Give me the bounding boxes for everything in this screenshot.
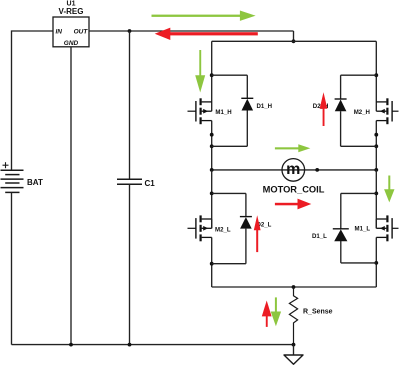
pin label GND	[64, 40, 79, 47]
ground	[284, 345, 303, 365]
svg-text:M1_L: M1_L	[355, 226, 371, 233]
wire left rail upper (top rail to M1_H)	[211, 41, 213, 111]
current arrow green down (left rail)	[195, 50, 205, 93]
label U1	[67, 1, 76, 8]
wire M2_H source to motor rail	[375, 121, 377, 170]
current arrow green right (top)	[152, 11, 256, 21]
junction D2_H top	[374, 73, 378, 77]
label D2_H	[313, 103, 329, 110]
svg-text:M2_H: M2_H	[354, 109, 370, 116]
diode D2_L	[240, 193, 252, 263]
label D1_H	[257, 103, 273, 110]
battery plus sign	[3, 162, 9, 168]
junction D1_H bottom	[210, 144, 214, 148]
label R_Sense	[303, 309, 333, 316]
junction C1 tap on OUT net	[128, 29, 132, 33]
label C1	[145, 179, 156, 188]
junction bottom rail center	[292, 285, 296, 289]
motor MOTOR_COIL	[282, 159, 305, 182]
transistor M1_L	[376, 215, 398, 241]
wire OUT net: regulator OUT to bridge drop	[89, 30, 294, 32]
wire M1_H source to motor rail	[211, 121, 213, 170]
label V-REG	[59, 7, 84, 16]
wire motor rail	[212, 169, 377, 171]
svg-text:IN: IN	[56, 28, 63, 35]
wire M1_L source to bottom rail	[375, 237, 377, 287]
wire D1_H bottom link	[212, 145, 248, 147]
label M1_H	[215, 109, 231, 116]
junction motor right tap	[315, 168, 319, 172]
label D1_L	[312, 233, 327, 240]
junction D1_H top	[210, 73, 214, 77]
label M1_L	[355, 226, 371, 233]
wire M1_L drain from motor rail	[375, 219, 377, 228]
diode D1_L	[333, 193, 349, 263]
label D2_L	[257, 222, 272, 229]
pin label OUT	[74, 28, 89, 35]
junction bottom bus C1 lead	[128, 343, 132, 347]
wire D2_H top link	[341, 74, 377, 76]
junction M2_H source pin	[374, 133, 378, 137]
wire bottom bus	[12, 344, 294, 346]
wire D1_H top link	[212, 74, 248, 76]
wire bottom rail	[212, 286, 377, 288]
transistor M1_H	[188, 98, 212, 124]
current arrow red up (R_Sense)	[262, 301, 272, 327]
transistor M2_L	[188, 215, 212, 241]
svg-text:BAT: BAT	[27, 178, 43, 187]
svg-text:M2_L: M2_L	[215, 226, 231, 233]
junction D2_L bottom	[210, 262, 214, 266]
wire D2_H bottom link	[341, 145, 377, 147]
junction M1_H source pin	[210, 133, 214, 137]
wire C1 bottom lead	[129, 184, 131, 344]
capacitor C1	[129, 31, 131, 179]
svg-text:D1_L: D1_L	[312, 233, 327, 240]
wire D1_L bottom link	[341, 262, 377, 264]
svg-text:D1_H: D1_H	[257, 103, 273, 110]
junction bottom bus R_Sense	[292, 343, 296, 347]
current arrow green down (R_Sense)	[271, 297, 281, 326]
wire D2_L bottom link	[212, 263, 246, 265]
current arrow red left (top)	[155, 28, 258, 40]
junction D1_L bottom	[374, 261, 378, 265]
current arrow green down (right rail)	[384, 176, 394, 203]
transistor M2_H	[376, 98, 398, 124]
wire left rail mid (motor rail to M2_L)	[211, 170, 213, 228]
label M2_L	[215, 226, 231, 233]
wire regulator GND lead	[70, 47, 72, 345]
junction motor rail right	[374, 168, 378, 172]
svg-text:R_Sense: R_Sense	[303, 309, 333, 316]
label BAT	[27, 178, 43, 187]
wire right rail upper (top rail to M2_H)	[375, 41, 377, 111]
battery BAT	[1, 170, 24, 192]
junction D2_H bottom	[374, 144, 378, 148]
wire D2_L top link	[212, 192, 246, 194]
wire M2_L source to bottom rail	[211, 237, 213, 287]
diode D1_H	[241, 75, 253, 146]
voltage regulator U1 V-REG	[53, 17, 89, 47]
svg-text:OUT: OUT	[74, 28, 89, 35]
junction D2_L top	[210, 192, 214, 196]
resistor R_Sense	[289, 287, 297, 345]
pin label IN	[56, 28, 63, 35]
svg-text:C1: C1	[145, 179, 156, 188]
svg-text:MOTOR_COIL: MOTOR_COIL	[263, 184, 325, 194]
label M2_H	[354, 109, 370, 116]
current arrow red up (D2_H)	[320, 92, 328, 126]
junction D1_L top	[374, 192, 378, 196]
junction motor rail left	[210, 168, 214, 172]
wire right rail mid (motor rail to M1_L)	[375, 170, 377, 228]
svg-text:V-REG: V-REG	[59, 7, 84, 16]
svg-text:GND: GND	[64, 40, 79, 47]
svg-text:M1_H: M1_H	[215, 109, 231, 116]
current arrow red up (D2_L)	[254, 215, 261, 252]
diode D2_H	[335, 75, 347, 146]
wire OUT drop to top rail	[293, 31, 295, 41]
svg-text:m: m	[286, 161, 300, 178]
label MOTOR_COIL	[263, 184, 325, 194]
junction bottom bus GND lead	[69, 343, 73, 347]
current arrow green right (above motor)	[275, 144, 310, 152]
wire top rail	[212, 40, 377, 42]
wire D1_L top link	[341, 192, 377, 194]
wire IN net: regulator IN to battery top	[12, 31, 54, 170]
wire M2_L drain from motor rail	[211, 219, 213, 228]
wire battery bottom lead	[11, 192, 13, 344]
junction top rail center	[292, 39, 296, 43]
current arrow red right (below motor)	[275, 199, 311, 210]
